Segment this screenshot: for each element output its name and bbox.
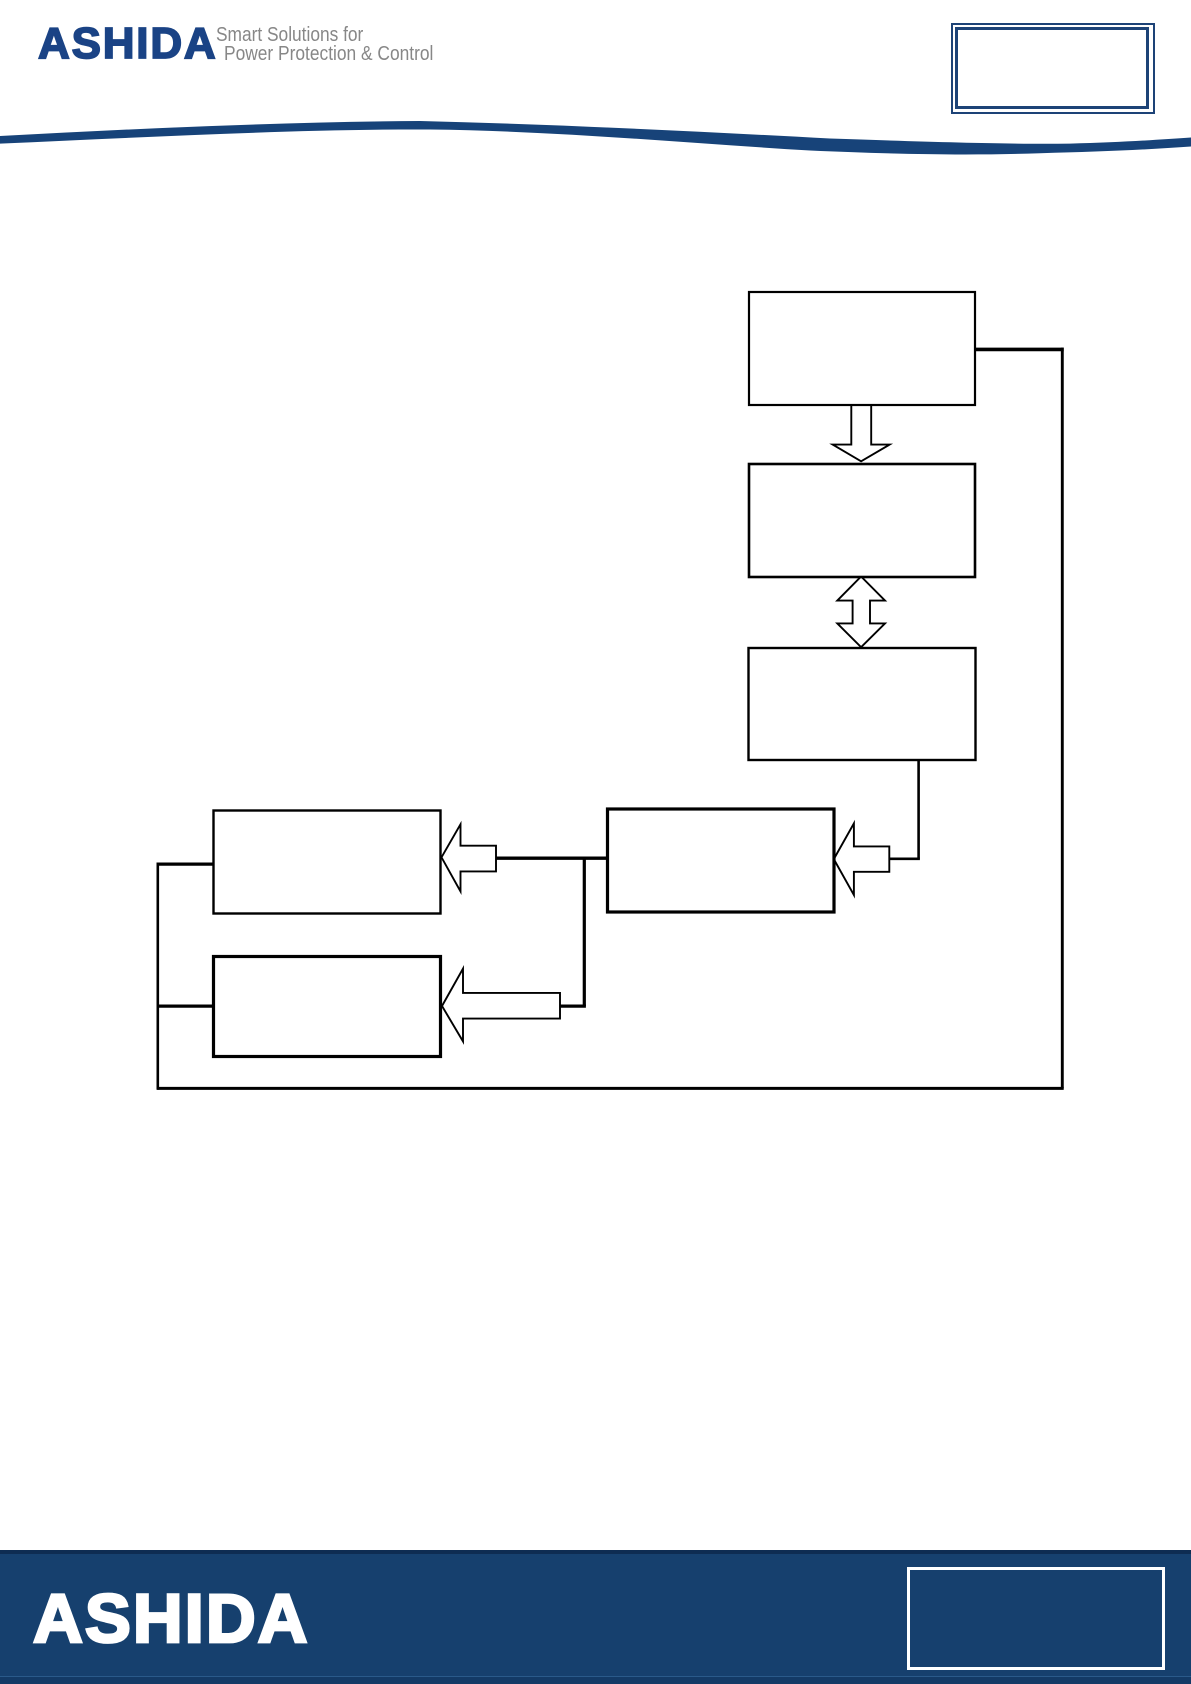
- block arrow left into box6: [442, 969, 560, 1042]
- box5 middle left: [214, 811, 441, 914]
- footer band bottom darker strip: [0, 1677, 1191, 1684]
- block arrow down from box1 to box2: [833, 405, 890, 462]
- block double arrow between box2 and box3: [837, 577, 885, 648]
- wire stub into box6: [157, 1004, 216, 1007]
- ASHIDA footer wordmark: [33, 1584, 310, 1653]
- header right double-border box (outer): [951, 23, 1155, 114]
- wire right vertical: [1061, 348, 1064, 1089]
- footer band: [0, 1554, 1191, 1684]
- wire bottom horizontal: [157, 1087, 1063, 1090]
- wire stub into box5: [157, 862, 216, 865]
- box6 bottom left: [214, 957, 441, 1057]
- wire down from box3: [917, 760, 920, 859]
- ASHIDA logo wordmark (header): [38, 22, 217, 66]
- box3: [749, 648, 976, 760]
- tagline line 1: [216, 25, 363, 45]
- wire short horizontal to arrow into box4: [888, 857, 920, 860]
- tagline line 2: [224, 44, 433, 64]
- flowchart: [0, 0, 1191, 1300]
- footer band bottom light line: [0, 1676, 1191, 1677]
- box1 top right: [749, 292, 975, 405]
- block arrow left into box5: [442, 824, 497, 891]
- footer band dark top edge: [0, 1550, 1191, 1554]
- wire from box4 left to arrow into box5: [495, 857, 610, 860]
- header right double-border box (inner): [955, 27, 1149, 109]
- wire short horizontal to arrow into box6: [558, 1004, 586, 1007]
- wire from box1 right to right vertical: [975, 348, 1064, 352]
- wire left vertical: [157, 863, 160, 1090]
- wire vertical branch down to box6 arrow: [583, 858, 586, 1006]
- header swoosh: [0, 0, 1191, 200]
- block arrow left into box4: [834, 823, 890, 895]
- box4 middle: [608, 809, 835, 912]
- box2: [749, 464, 975, 577]
- footer white box: [907, 1567, 1165, 1670]
